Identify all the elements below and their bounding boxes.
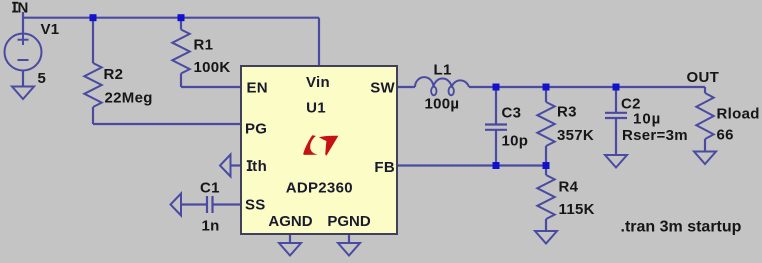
svg-text:ADP2360: ADP2360: [286, 180, 353, 197]
svg-text:U1: U1: [306, 100, 326, 117]
svg-text:PG: PG: [245, 121, 267, 138]
svg-text:1n: 1n: [202, 218, 220, 235]
svg-text:100µ: 100µ: [425, 96, 460, 113]
svg-text:Rload: Rload: [717, 106, 760, 123]
svg-text:C3: C3: [502, 105, 522, 122]
svg-text:R3: R3: [557, 104, 577, 121]
svg-text:AGND: AGND: [268, 213, 312, 230]
svg-text:L1: L1: [434, 62, 452, 79]
svg-text:R1: R1: [194, 37, 214, 54]
svg-text:Vin: Vin: [306, 74, 330, 91]
svg-text:22Meg: 22Meg: [105, 90, 153, 107]
svg-text:V1: V1: [41, 21, 60, 38]
svg-text:FB: FB: [374, 159, 395, 176]
svg-text:SS: SS: [245, 197, 266, 214]
svg-text:Rser=3m: Rser=3m: [622, 127, 688, 144]
svg-text:10p: 10p: [502, 133, 529, 150]
svg-text:.tran 3m startup: .tran 3m startup: [621, 219, 742, 236]
svg-text:C1: C1: [200, 180, 220, 197]
svg-text:R4: R4: [559, 179, 579, 196]
svg-text:357K: 357K: [557, 127, 594, 144]
svg-text:66: 66: [717, 127, 734, 144]
svg-text:115K: 115K: [559, 201, 595, 218]
svg-text:100K: 100K: [194, 59, 231, 76]
svg-text:SW: SW: [370, 80, 395, 97]
svg-text:OUT: OUT: [687, 69, 720, 86]
svg-text:EN: EN: [247, 80, 268, 97]
svg-text:PGND: PGND: [327, 213, 371, 230]
svg-text:10µ: 10µ: [633, 111, 661, 128]
svg-text:5: 5: [38, 70, 47, 87]
svg-text:R2: R2: [104, 66, 124, 83]
